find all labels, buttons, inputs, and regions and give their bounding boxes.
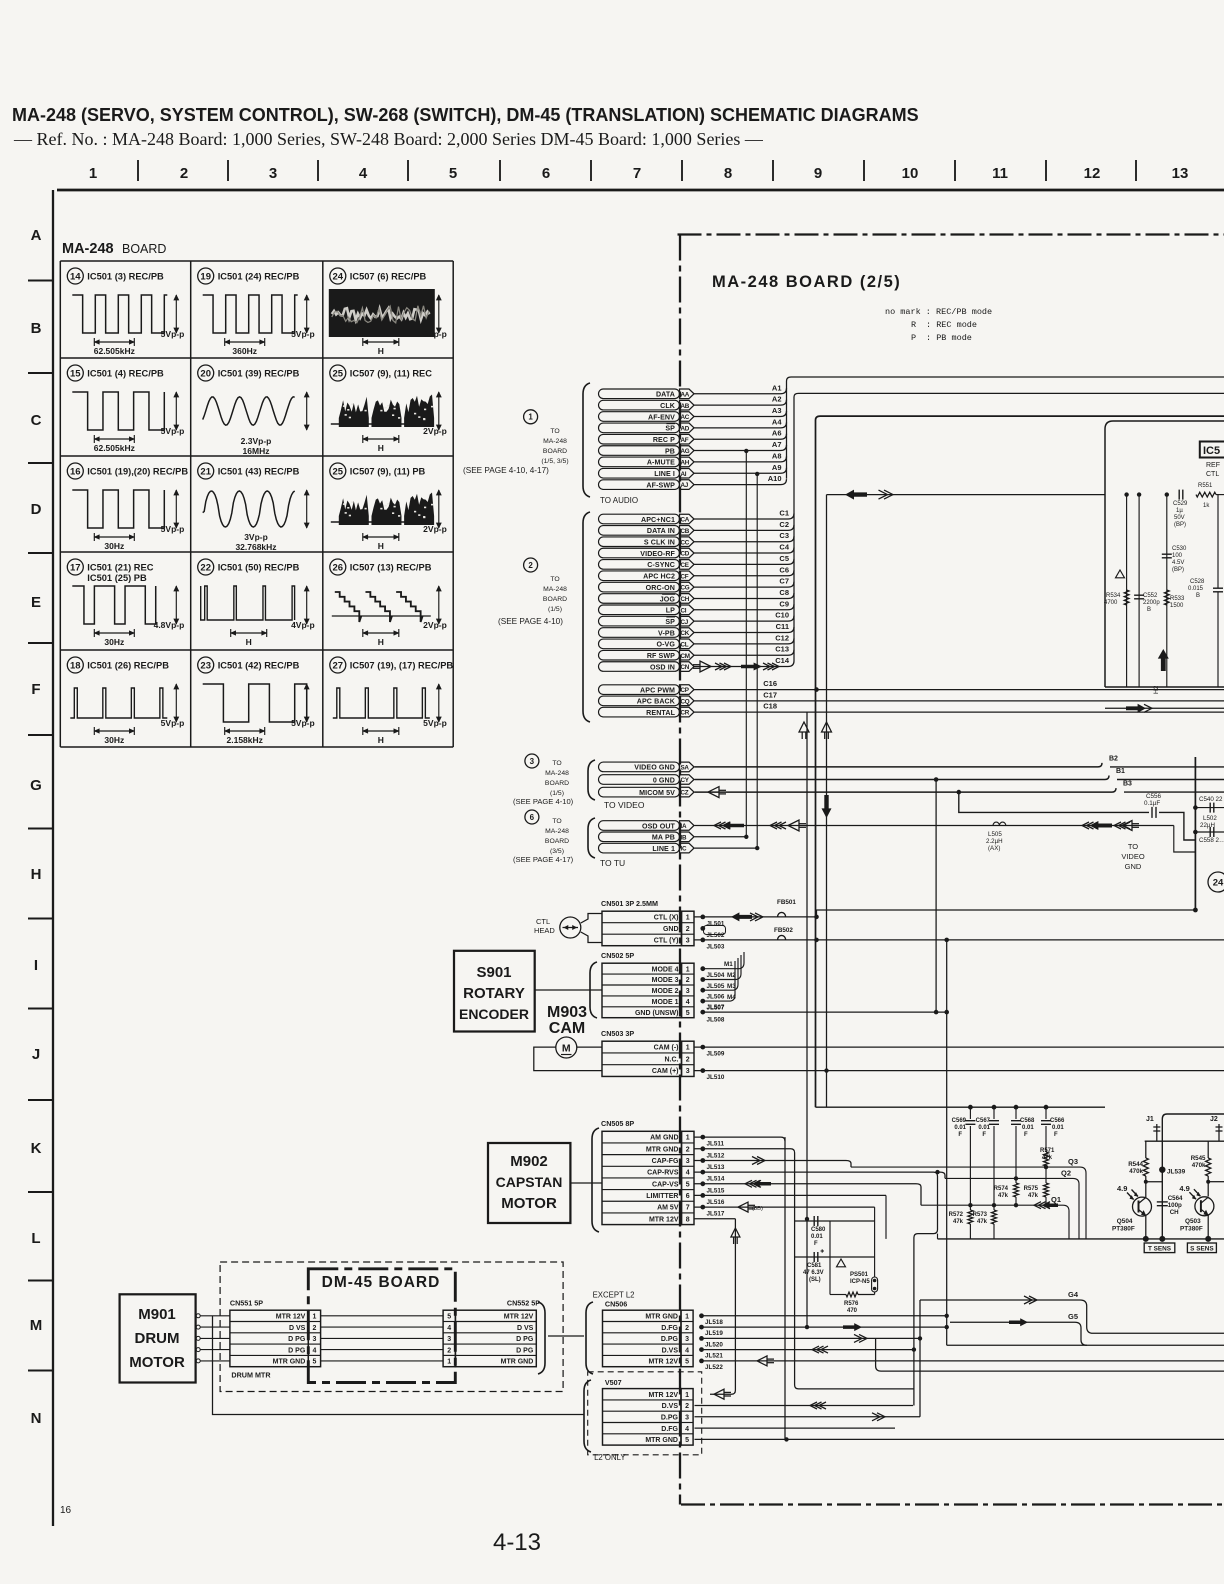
svg-text:47k: 47k (977, 1219, 988, 1225)
svg-text:1: 1 (686, 1045, 690, 1052)
svg-text:JL520: JL520 (705, 1341, 723, 1348)
V507 connector L2 only (588, 1372, 702, 1455)
svg-text:VIDEO GND: VIDEO GND (634, 764, 675, 772)
J1 header (1146, 1116, 1160, 1141)
svg-text:H: H (378, 637, 384, 647)
svg-text:PS501: PS501 (850, 1272, 869, 1278)
connector group 6 to tuner (588, 818, 694, 868)
svg-text:A7: A7 (772, 440, 782, 449)
svg-text:MTR GND: MTR GND (645, 1313, 678, 1320)
svg-text:L505: L505 (988, 831, 1002, 838)
svg-text:MODE 3: MODE 3 (652, 977, 679, 984)
svg-text:PT380F: PT380F (1112, 1226, 1135, 1233)
svg-text:C566: C566 (1050, 1118, 1065, 1124)
svg-text:APC+NC1: APC+NC1 (641, 516, 675, 524)
svg-text:F: F (31, 681, 40, 698)
svg-text:C540 22: C540 22 (1199, 796, 1223, 803)
svg-text:A3: A3 (772, 406, 782, 415)
svg-text:B: B (1196, 593, 1200, 599)
svg-text:(SEE PAGE 4-17): (SEE PAGE 4-17) (513, 855, 574, 864)
OSD line mid arrows (1082, 822, 1089, 829)
svg-text:C4: C4 (779, 543, 789, 552)
svg-text:1µ: 1µ (1176, 508, 1183, 514)
capacitor C528 (1188, 495, 1223, 687)
CN506/V507 wires (695, 1300, 1224, 1442)
svg-text:JL521: JL521 (705, 1353, 723, 1360)
svg-text:H2: H2 (1153, 685, 1160, 694)
LINE 1 wire (695, 847, 758, 849)
svg-text:CTL (Y): CTL (Y) (654, 938, 679, 945)
svg-text:2: 2 (686, 1056, 690, 1063)
svg-text:CAP-VS: CAP-VS (652, 1181, 679, 1188)
svg-text:JL517: JL517 (707, 1211, 725, 1218)
svg-text:AF-SWP: AF-SWP (646, 481, 675, 489)
svg-text:IC501 (3) REC/PB: IC501 (3) REC/PB (87, 272, 164, 282)
svg-text:MTR GND: MTR GND (646, 1146, 679, 1153)
M902 capstan motor box (488, 1143, 602, 1223)
svg-text:2: 2 (685, 1403, 689, 1410)
svg-text:JL539: JL539 (1167, 1169, 1186, 1176)
C bundle vertical (793, 397, 795, 661)
svg-text:360Hz: 360Hz (232, 346, 257, 356)
svg-text:(SEE PAGE 4-10, 4-17): (SEE PAGE 4-10, 4-17) (463, 466, 549, 475)
MTR12V branch down (710, 1219, 735, 1395)
svg-text:MODE 4: MODE 4 (652, 966, 679, 973)
svg-text:M: M (30, 1317, 43, 1334)
svg-text:A6: A6 (772, 429, 782, 438)
svg-text:IC501 (25) PB: IC501 (25) PB (87, 573, 147, 583)
D2 line (945, 1168, 1079, 1239)
junctions JL511-JL517 and wires (695, 1135, 946, 1406)
svg-text:Q504: Q504 (1117, 1218, 1133, 1225)
svg-text:C18: C18 (763, 702, 777, 711)
svg-text:3: 3 (686, 938, 690, 945)
svg-text:A: A (31, 227, 42, 244)
group 2 note (498, 558, 567, 626)
svg-text:H: H (378, 541, 384, 551)
svg-text:100: 100 (1172, 553, 1183, 559)
OSD IN signal arrows (700, 661, 711, 672)
svg-text:CN501 3P 2.5MM: CN501 3P 2.5MM (601, 899, 658, 908)
svg-text:M903: M903 (547, 1004, 587, 1021)
svg-text:TO: TO (1128, 842, 1138, 851)
svg-text:2: 2 (686, 926, 690, 933)
svg-text:D PG: D PG (288, 1347, 306, 1354)
svg-text:D PG: D PG (288, 1336, 306, 1343)
svg-text:J: J (32, 1046, 40, 1063)
group 6 note (513, 810, 574, 864)
waveform cell (23) IC501 (42) REC/PB (198, 657, 315, 745)
svg-text:CF: CF (681, 573, 689, 580)
ferrite bead FB502 (778, 935, 786, 940)
svg-text:AI: AI (681, 471, 687, 478)
capacitor C552 (1134, 593, 1160, 613)
svg-text:TO TU: TO TU (600, 858, 625, 868)
svg-text:TO: TO (550, 428, 559, 435)
svg-text:14: 14 (70, 271, 81, 282)
svg-text:DRUM MTR: DRUM MTR (231, 1371, 271, 1380)
fuse PS501 (837, 1259, 878, 1292)
black up arrow in box (1158, 649, 1169, 671)
svg-text:D.VS: D.VS (662, 1347, 679, 1354)
svg-text:RF SWP: RF SWP (647, 652, 675, 660)
waveform cell (17) IC501 (21) REC (67, 559, 184, 647)
svg-text:APC BACK: APC BACK (637, 698, 676, 706)
svg-text:5: 5 (686, 1010, 690, 1017)
capacitor C580 (795, 1216, 875, 1247)
svg-text:F: F (982, 1132, 986, 1138)
svg-text:9: 9 (814, 165, 822, 182)
svg-text:AJ: AJ (681, 482, 689, 489)
svg-text:REF: REF (1206, 462, 1220, 469)
svg-text:22: 22 (200, 562, 211, 573)
svg-text:IC501 (19),(20) REC/PB: IC501 (19),(20) REC/PB (87, 467, 188, 477)
svg-text:APC HC2: APC HC2 (643, 573, 675, 581)
svg-text:JL507: JL507 (707, 1004, 725, 1011)
svg-text:17: 17 (70, 562, 81, 573)
svg-text:IC501 (24) REC/PB: IC501 (24) REC/PB (218, 272, 300, 282)
svg-text:2: 2 (686, 1146, 690, 1153)
svg-text:no mark : REC/PB mode: no mark : REC/PB mode (885, 307, 992, 317)
waveform cell (21) IC501 (43) REC/PB (198, 463, 309, 528)
svg-text:20: 20 (200, 368, 211, 379)
svg-text:1: 1 (89, 165, 97, 182)
waveform cell (25) IC507 (9), (11) PB (330, 463, 447, 551)
svg-text:1: 1 (528, 413, 533, 422)
svg-text:0.015: 0.015 (1188, 586, 1204, 592)
svg-text:CN551 5P: CN551 5P (230, 1299, 263, 1308)
svg-text:LINE 1: LINE 1 (652, 845, 675, 853)
svg-text:8: 8 (724, 165, 732, 182)
svg-text:IC507 (13) REC/PB: IC507 (13) REC/PB (350, 563, 432, 573)
svg-text:C9: C9 (779, 599, 789, 608)
svg-text:ICP-N5: ICP-N5 (850, 1279, 870, 1285)
svg-text:JL518: JL518 (705, 1319, 723, 1326)
svg-text:C10: C10 (775, 611, 789, 620)
svg-text:C12: C12 (775, 633, 789, 642)
svg-text:5: 5 (685, 1437, 689, 1444)
svg-text:0.01: 0.01 (811, 1234, 823, 1240)
svg-text:50V: 50V (1174, 515, 1185, 521)
micom 5v arrow (708, 787, 719, 798)
svg-text:M902: M902 (510, 1153, 548, 1170)
svg-text:P: P (911, 333, 916, 343)
G4 G5 wires (876, 1290, 1224, 1371)
svg-text:CAPSTAN: CAPSTAN (496, 1174, 563, 1190)
svg-text:MTR 12V: MTR 12V (649, 1216, 679, 1223)
svg-text:JL506: JL506 (707, 994, 725, 1001)
svg-text:5: 5 (312, 1359, 316, 1366)
svg-text:Q503: Q503 (1185, 1218, 1201, 1225)
svg-text:R573: R573 (973, 1212, 988, 1218)
CTL Y wire (695, 939, 1224, 941)
svg-text:4-13: 4-13 (493, 1529, 541, 1556)
svg-text:1: 1 (685, 1392, 689, 1399)
svg-text:ORC-ON: ORC-ON (646, 584, 675, 592)
junctions JL504-JL508 and mode wires (700, 952, 949, 1024)
J2 header (1210, 1116, 1223, 1141)
svg-text:JL509: JL509 (707, 1051, 725, 1058)
svg-text:AM GND: AM GND (650, 1135, 678, 1142)
CTL X wire (695, 916, 817, 918)
svg-text:S SENS: S SENS (1190, 1245, 1214, 1252)
svg-text:IB: IB (681, 834, 687, 841)
svg-text:AA: AA (681, 391, 690, 398)
OSD OUT wire (695, 826, 1196, 853)
svg-text:C13: C13 (775, 645, 789, 654)
phototransistor Q504 (1112, 1184, 1152, 1239)
PB to MA PB link (745, 451, 747, 837)
svg-text:JL504: JL504 (707, 972, 725, 979)
svg-text:MTR 12V: MTR 12V (276, 1313, 306, 1320)
svg-text:4: 4 (447, 1325, 451, 1332)
junction JL501-JL503 (700, 915, 725, 951)
waveform cell (18) IC501 (26) REC/PB (67, 657, 184, 745)
VIDEO GND bus (695, 763, 1103, 767)
svg-text:AF-ENV: AF-ENV (648, 413, 675, 421)
FB501 junction dots (814, 915, 819, 943)
svg-text:BOARD: BOARD (122, 242, 166, 256)
svg-text:47k: 47k (1042, 1155, 1053, 1161)
svg-text:AH: AH (681, 460, 690, 467)
svg-text:D: D (31, 501, 42, 518)
svg-text:JL516: JL516 (707, 1199, 725, 1206)
svg-text:G4: G4 (1068, 1290, 1079, 1299)
resistor R544 (1128, 1141, 1148, 1197)
svg-text:BOARD: BOARD (545, 838, 569, 845)
svg-text:Q2: Q2 (1061, 1168, 1071, 1177)
capacitor C529 (1173, 490, 1188, 528)
S SENS label (1187, 1243, 1216, 1253)
svg-text:(SEE PAGE 4-10): (SEE PAGE 4-10) (498, 617, 563, 626)
waveform cell (16) IC501 (19),(20) REC/PB (67, 463, 188, 551)
svg-text:AB: AB (681, 403, 690, 410)
svg-text:C569: C569 (952, 1118, 967, 1124)
svg-text:R574: R574 (994, 1186, 1009, 1192)
svg-text:CB: CB (681, 528, 690, 535)
box A internal components (1124, 492, 1169, 687)
svg-text:30Hz: 30Hz (104, 735, 124, 745)
right edge bus and components C540 L502 C558 (1193, 757, 1224, 910)
svg-text:AD: AD (681, 425, 690, 432)
svg-text:(1/5): (1/5) (548, 606, 562, 613)
bottom arrows (714, 1389, 724, 1399)
svg-text:H: H (246, 637, 252, 647)
svg-text:IC: IC (681, 846, 687, 853)
svg-text:2Vp-p: 2Vp-p (423, 524, 447, 534)
svg-text:D.VS: D.VS (662, 1403, 679, 1410)
svg-text:A4: A4 (772, 417, 782, 426)
svg-text:32.768kHz: 32.768kHz (235, 542, 276, 552)
svg-text:CN552 5P: CN552 5P (507, 1299, 540, 1308)
svg-text:B3: B3 (1123, 781, 1132, 788)
svg-text:JL515: JL515 (707, 1187, 725, 1194)
svg-text:3: 3 (686, 988, 690, 995)
svg-text:19: 19 (200, 271, 211, 282)
svg-text:L502: L502 (1203, 815, 1217, 822)
svg-text:ENCODER: ENCODER (459, 1006, 529, 1022)
svg-text:1: 1 (447, 1359, 451, 1366)
svg-text:S901: S901 (476, 964, 511, 981)
svg-text:C564: C564 (1168, 1195, 1183, 1202)
svg-text:4Vp-p: 4Vp-p (291, 620, 315, 630)
svg-text:IC507 (9), (11) PB: IC507 (9), (11) PB (350, 467, 426, 477)
svg-text:5Vp-p: 5Vp-p (161, 718, 185, 728)
resistor R574 (994, 1178, 1019, 1205)
svg-text:C11: C11 (776, 622, 789, 631)
svg-text:B: B (1147, 607, 1151, 613)
sensor sub-box (1162, 1114, 1224, 1239)
svg-text:IC5: IC5 (1203, 445, 1220, 457)
svg-text:C568: C568 (1020, 1118, 1035, 1124)
svg-text:(1/5, 3/5): (1/5, 3/5) (541, 458, 568, 465)
svg-text:C529: C529 (1173, 501, 1188, 507)
svg-text:V507: V507 (605, 1378, 622, 1387)
svg-text:JOG: JOG (660, 595, 676, 603)
svg-text:CA: CA (681, 517, 690, 524)
svg-text:IC501 (42) REC/PB: IC501 (42) REC/PB (218, 661, 300, 671)
svg-text:4.9: 4.9 (1117, 1184, 1127, 1193)
svg-text:MA-248: MA-248 (543, 438, 567, 445)
svg-text:F: F (1024, 1132, 1028, 1138)
svg-text:N.C.: N.C. (665, 1056, 679, 1063)
svg-text:5Vp-p: 5Vp-p (161, 329, 185, 339)
svg-text:3: 3 (269, 165, 277, 182)
svg-text:C: C (31, 412, 42, 429)
left ruler (28, 190, 72, 1526)
svg-text:A-MUTE: A-MUTE (647, 459, 675, 467)
svg-text:4: 4 (685, 1426, 689, 1433)
svg-text:2: 2 (312, 1325, 316, 1332)
svg-text:C567: C567 (976, 1118, 991, 1124)
outer dashed enclosure (220, 1262, 563, 1392)
svg-text:ROTARY: ROTARY (463, 985, 525, 1002)
svg-text:GND: GND (663, 926, 679, 933)
svg-text:FB502: FB502 (774, 927, 793, 934)
hollow connector arrows (799, 722, 809, 732)
waveform cell (15) IC501 (4) REC/PB (67, 365, 184, 453)
svg-text:0.01: 0.01 (1052, 1125, 1064, 1131)
svg-text:IC501 (21) REC: IC501 (21) REC (87, 563, 153, 573)
svg-text:(3/5): (3/5) (550, 848, 564, 855)
svg-text:MOTOR: MOTOR (129, 1354, 185, 1371)
svg-text:7: 7 (686, 1205, 690, 1212)
svg-text:TO: TO (552, 760, 561, 767)
connector group 1 to audio (583, 381, 787, 505)
svg-text:B2: B2 (1109, 755, 1118, 762)
svg-text:JL519: JL519 (705, 1330, 723, 1337)
svg-text:62.505kHz: 62.505kHz (94, 346, 135, 356)
svg-text:MA-248: MA-248 (545, 828, 569, 835)
svg-text:H: H (378, 443, 384, 453)
svg-text:22µH: 22µH (1200, 822, 1215, 829)
svg-text:MTR GND: MTR GND (273, 1359, 306, 1366)
svg-text:LIMITTER: LIMITTER (646, 1193, 678, 1200)
svg-text:SP: SP (665, 618, 675, 626)
svg-text:3: 3 (312, 1336, 316, 1343)
svg-text:MA-248: MA-248 (545, 770, 569, 777)
phototransistor Q503 (1179, 1184, 1214, 1239)
0 GND bus (695, 776, 1110, 780)
svg-text:: REC mode: : REC mode (926, 320, 977, 330)
svg-text:4: 4 (685, 1347, 689, 1354)
svg-text:R575: R575 (1024, 1186, 1039, 1192)
svg-text:SP: SP (665, 425, 675, 433)
svg-text:F: F (814, 1241, 818, 1247)
svg-text:12: 12 (1084, 165, 1101, 182)
svg-text:11: 11 (992, 165, 1008, 182)
svg-text:MODE 2: MODE 2 (652, 988, 679, 995)
resistor R533 (1164, 590, 1185, 609)
svg-text:IC501 (50) REC/PB: IC501 (50) REC/PB (218, 563, 300, 573)
svg-text:MTR GND: MTR GND (501, 1359, 534, 1366)
DM-45 board outline (308, 1269, 455, 1383)
svg-text:TO: TO (552, 818, 561, 825)
top ruler (57, 160, 1224, 190)
limitter branch (885, 1195, 887, 1239)
svg-text:CLK: CLK (660, 402, 676, 410)
waveform cell (26) IC507 (13) REC/PB (330, 559, 447, 647)
svg-text:47 6.3V: 47 6.3V (803, 1270, 824, 1276)
sensor rail (1145, 1140, 1224, 1142)
svg-text:H: H (378, 735, 384, 745)
svg-text:6: 6 (542, 165, 550, 182)
link wire to CN506 group (548, 1335, 584, 1337)
capacitor C556 (1144, 793, 1162, 818)
svg-text:Q1: Q1 (1051, 1195, 1061, 1204)
svg-text:1: 1 (686, 966, 690, 973)
svg-text:0.01: 0.01 (954, 1125, 966, 1131)
box B pins B2 B1 B3 (1109, 755, 1132, 787)
svg-text:G5: G5 (1068, 1312, 1078, 1321)
svg-text:30Hz: 30Hz (104, 637, 124, 647)
svg-text:Q3: Q3 (1068, 1157, 1078, 1166)
svg-text:CAM: CAM (549, 1020, 585, 1037)
svg-text:CN505 8P: CN505 8P (601, 1119, 634, 1128)
svg-text:3: 3 (685, 1414, 689, 1421)
svg-text:CG: CG (681, 585, 690, 592)
svg-text:IC501 (39) REC/PB: IC501 (39) REC/PB (218, 369, 300, 379)
resistor R534 (1104, 570, 1129, 606)
svg-text:24: 24 (1213, 877, 1224, 888)
svg-text:26: 26 (333, 562, 344, 573)
svg-text:FB501: FB501 (777, 899, 796, 906)
svg-text:MA-248: MA-248 (62, 241, 114, 257)
svg-text:C528: C528 (1190, 579, 1205, 585)
svg-text:CN502 5P: CN502 5P (601, 951, 634, 960)
resistor R575 (1024, 1167, 1049, 1205)
M903 CAM motor (534, 1004, 602, 1071)
svg-text:16: 16 (60, 1505, 72, 1516)
svg-text:3: 3 (447, 1336, 451, 1343)
svg-text:2200p: 2200p (1143, 600, 1160, 606)
capacitor C581 (795, 1249, 875, 1283)
svg-text:JL511: JL511 (707, 1141, 725, 1148)
svg-text:5: 5 (447, 1313, 451, 1320)
capacitor C566 (1041, 1107, 1065, 1152)
svg-text:CZ: CZ (681, 790, 689, 797)
top bus wires (787, 377, 1224, 1107)
svg-text:JL502: JL502 (707, 932, 725, 939)
svg-text:D VS: D VS (289, 1325, 306, 1332)
svg-text:100p: 100p (1168, 1202, 1182, 1209)
svg-text:JL513: JL513 (707, 1164, 725, 1171)
ferrite bead FB501 (778, 912, 786, 916)
D1 line (921, 1195, 1069, 1239)
svg-text:C530: C530 (1172, 546, 1187, 552)
svg-text:D VS: D VS (517, 1325, 534, 1332)
svg-text:MICOM 5V: MICOM 5V (639, 789, 675, 797)
